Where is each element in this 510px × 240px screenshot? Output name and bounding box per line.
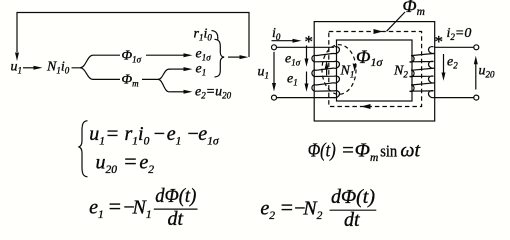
node u1 label — [11, 60, 23, 76]
label i0 with arrow — [272, 26, 281, 42]
arrow Phi1sigma to e1sigma — [146, 54, 184, 56]
node e1 label — [196, 62, 207, 78]
dot-polarity asterisk primary — [305, 32, 314, 51]
arrow u1 to N1i0 — [23, 67, 34, 69]
svg-text:*: * — [435, 32, 444, 51]
equation e1 = -N1 dPhi(t)/dt — [89, 185, 197, 221]
svg-text:dΦ(t): dΦ(t) — [331, 186, 375, 208]
wire fork after Phim — [142, 69, 171, 79]
terminal secondary bottom — [474, 95, 479, 100]
label Phi_m with pointer line — [403, 0, 425, 18]
flux path dashed rectangle Phi_m — [329, 32, 422, 107]
dot-polarity asterisk secondary — [435, 32, 444, 51]
equation u20 = e2 — [96, 149, 155, 177]
svg-text:Φ(t)=Φmsinωt: Φ(t)=Φmsinωt — [308, 138, 421, 165]
svg-text:u20=e2: u20=e2 — [96, 149, 155, 177]
wire primary top — [277, 46, 335, 48]
wire tail after r1i0 — [212, 31, 218, 41]
label i2=0 — [447, 26, 472, 42]
terminal secondary top — [474, 45, 479, 50]
label e1sigma with arrow — [285, 52, 301, 68]
equation e2 = -N2 dPhi(t)/dt — [260, 186, 375, 222]
brace grouping r1i0 e1sigma e1 — [215, 39, 225, 77]
node Phim label — [122, 73, 140, 89]
wire primary bottom — [277, 97, 336, 99]
winding N1 (primary coil) — [312, 47, 340, 98]
flux arrow on top dashed edge (right) — [374, 29, 384, 34]
wire secondary bottom — [434, 97, 474, 99]
svg-text:i2=0: i2=0 — [447, 26, 472, 42]
node e1sigma label — [196, 47, 212, 63]
flux arrow on bottom dashed edge (left) — [361, 104, 371, 109]
leakage flux down arrowhead on ellipse — [353, 63, 357, 71]
label e2 with arrow — [447, 55, 458, 71]
svg-text:u1=r1i0−e1−e1σ: u1=r1i0−e1−e1σ — [89, 121, 220, 148]
core outer rectangle — [314, 22, 435, 121]
arrow into u1 (down) — [15, 53, 19, 62]
svg-text:*: * — [305, 32, 314, 51]
leakage flux up arrow — [326, 66, 328, 76]
svg-text:dΦ(t): dΦ(t) — [155, 185, 196, 207]
label N2 — [393, 64, 408, 80]
equation Phi(t) = Phi_m sin wt — [308, 138, 421, 165]
label u20 with arrow — [479, 64, 496, 80]
node r1i0 label — [194, 27, 213, 43]
terminal primary top — [272, 45, 277, 50]
terminal primary bottom — [272, 95, 277, 100]
wire fork after N1i0 — [72, 55, 121, 68]
equation system brace — [78, 121, 87, 177]
equation u1 = r1i0 - e1 - e1sigma — [89, 121, 220, 148]
wire feedback loop top — [17, 13, 249, 58]
arrow from brace to feedback line — [228, 56, 240, 58]
arrow to e1 — [171, 68, 184, 70]
arrow to e2=u20 — [171, 91, 184, 93]
label e1 with arrow — [287, 72, 298, 88]
svg-text:dt: dt — [344, 209, 360, 231]
node Phi1sigma label — [122, 49, 142, 65]
winding N2 (secondary coil) — [410, 47, 435, 98]
wire secondary top — [434, 46, 474, 48]
core inner window rectangle — [337, 40, 413, 101]
label Phi1sigma (transformer) — [356, 47, 383, 69]
svg-text:dt: dt — [168, 208, 184, 230]
label N1 — [340, 64, 355, 80]
label u1 with arrow (primary voltage) — [258, 65, 270, 81]
leakage flux dashed ellipse Phi1sigma — [322, 45, 356, 95]
node e2=u20 label — [195, 85, 232, 101]
node N1i0 label — [46, 60, 70, 76]
